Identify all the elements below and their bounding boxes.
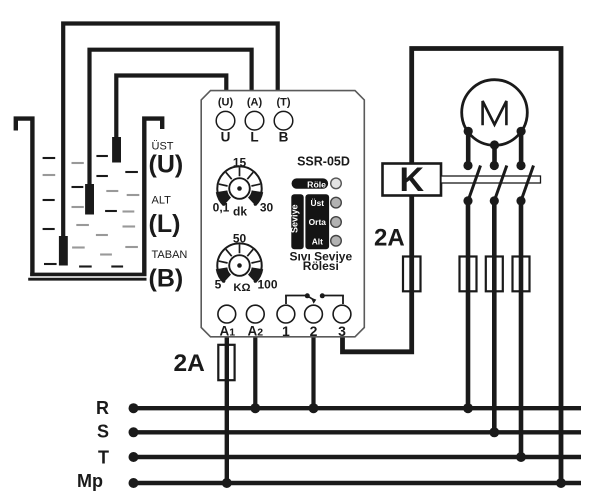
svg-text:A2: A2	[248, 324, 264, 339]
svg-text:(L): (L)	[149, 210, 181, 238]
potentiometer KOhm: end-stop wedges	[216, 267, 231, 283]
svg-text:TABAN: TABAN	[152, 249, 188, 261]
fuse (phase R)	[460, 257, 477, 292]
relay terminal A1	[218, 305, 236, 323]
svg-text:ALT: ALT	[152, 195, 172, 207]
fuse (phase T)	[513, 257, 530, 292]
svg-text:2A: 2A	[174, 350, 206, 377]
junction: K circuit-Mp	[556, 478, 566, 488]
svg-text:(T): (T)	[276, 97, 290, 109]
svg-text:3: 3	[338, 323, 346, 339]
svg-text:SSR-05D: SSR-05D	[297, 155, 350, 169]
svg-text:1: 1	[282, 323, 290, 339]
svg-text:B: B	[279, 130, 289, 145]
tank right wall with rim	[144, 119, 162, 276]
motor M	[462, 80, 528, 146]
wire: contact 1 to R bus (through fuse)	[466, 201, 471, 408]
contactor K main contact 3	[516, 161, 533, 206]
svg-text:5: 5	[215, 278, 222, 292]
svg-text:L: L	[250, 130, 258, 145]
fuse 2A (coil circuit)	[403, 257, 421, 292]
junction: A2-R	[250, 403, 260, 413]
wire: electrode L to relay terminal (A)	[90, 50, 252, 185]
level labels box	[305, 194, 329, 249]
wire: contact 3 to T bus (through fuse)	[519, 201, 524, 457]
contactor K main contact 2	[490, 161, 507, 206]
junction: phase-S	[489, 427, 499, 437]
Seviye label box	[291, 194, 303, 249]
wire: motor to contact 1	[466, 131, 471, 165]
svg-text:Röle: Röle	[307, 179, 326, 189]
svg-text:Alt: Alt	[312, 237, 323, 247]
wire: terminal A2 to R bus	[253, 337, 257, 408]
LED Orta	[331, 217, 342, 228]
electrode U (ÜST) probe tip	[112, 137, 121, 163]
contactor coil K	[383, 164, 442, 196]
svg-text:KΩ: KΩ	[233, 282, 250, 294]
fuse (phase S)	[486, 257, 503, 292]
svg-text:S: S	[97, 422, 109, 442]
potentiometer dk: outer dial arc	[217, 166, 261, 205]
svg-text:Seviye: Seviye	[290, 204, 300, 233]
wire: motor to contact 3	[519, 131, 524, 165]
relay SSR-05D body	[201, 91, 364, 337]
svg-text:R: R	[96, 398, 109, 418]
tank left wall with rim	[16, 119, 33, 276]
contactor linkage bar	[441, 176, 541, 183]
svg-text:(U): (U)	[218, 97, 234, 109]
potentiometer dk: end-stop wedges	[216, 190, 231, 206]
svg-text:(B): (B)	[149, 265, 184, 293]
potentiometer dk: knob cap	[229, 178, 250, 199]
svg-text:Orta: Orta	[309, 217, 327, 227]
potentiometer dk: scale ticks	[219, 167, 260, 186]
svg-text:100: 100	[257, 278, 277, 292]
potentiometer KOhm: outer dial arc	[217, 243, 261, 282]
bus T	[134, 455, 582, 459]
relay terminal 1	[277, 305, 295, 323]
electrode B (TABAN) probe tip	[59, 236, 68, 266]
junction: phase-T	[516, 452, 526, 462]
svg-text:T: T	[98, 448, 109, 468]
LED Üst	[331, 197, 342, 208]
tank bottom (double line)	[30, 273, 146, 277]
svg-text:2: 2	[310, 323, 318, 339]
indicator Röle (black pill)	[292, 178, 329, 188]
svg-text:Mp: Mp	[77, 471, 103, 491]
svg-text:dk: dk	[233, 205, 247, 219]
junction: 2-R	[309, 403, 319, 413]
bus R	[134, 406, 582, 410]
wire: electrode U to relay terminal (U)	[116, 76, 226, 141]
fuse 2A (relay supply, on A1 line)	[218, 345, 234, 380]
wire: terminal 2 to R bus	[311, 337, 315, 408]
junction: A1-Mp	[222, 478, 232, 488]
wire: terminal 3 via fuse and contactor coil K to top line and down to Mp bus	[343, 49, 562, 484]
svg-text:K: K	[400, 161, 425, 199]
bus Mp	[134, 481, 582, 485]
svg-text:A1: A1	[220, 324, 236, 339]
svg-text:Rölesi: Rölesi	[303, 259, 339, 273]
potentiometer KOhm: scale ticks	[219, 244, 260, 263]
svg-text:(A): (A)	[247, 97, 263, 109]
wire: motor to contact 2	[492, 145, 497, 166]
junction: phase-R	[463, 403, 473, 413]
motor terminal dots	[464, 127, 473, 136]
potentiometer KOhm: knob cap	[229, 255, 250, 276]
svg-text:(U): (U)	[149, 151, 184, 179]
wire: contact 2 to S bus (through fuse)	[492, 201, 497, 432]
relay terminal A2	[246, 305, 264, 323]
electrode L (ALT) probe tip	[85, 184, 94, 215]
svg-text:Üst: Üst	[311, 198, 325, 208]
relay output contact symbol (SPDT over terminals 1-2-3)	[285, 296, 344, 305]
bus S	[134, 430, 582, 434]
svg-text:2A: 2A	[374, 225, 405, 252]
wire: electrode B to relay terminal (T)	[63, 24, 278, 238]
relay terminal 2	[305, 305, 323, 323]
LED Alt	[331, 236, 342, 247]
contactor K main contact 1	[463, 161, 480, 206]
svg-text:0,1: 0,1	[213, 201, 230, 215]
LED Röle	[331, 178, 342, 189]
svg-text:U: U	[221, 130, 231, 145]
svg-text:30: 30	[260, 201, 274, 215]
wire: terminal A1 to Mp bus (through fuse)	[225, 337, 229, 483]
relay terminal 3	[333, 305, 351, 323]
water (dashes)	[43, 156, 140, 267]
